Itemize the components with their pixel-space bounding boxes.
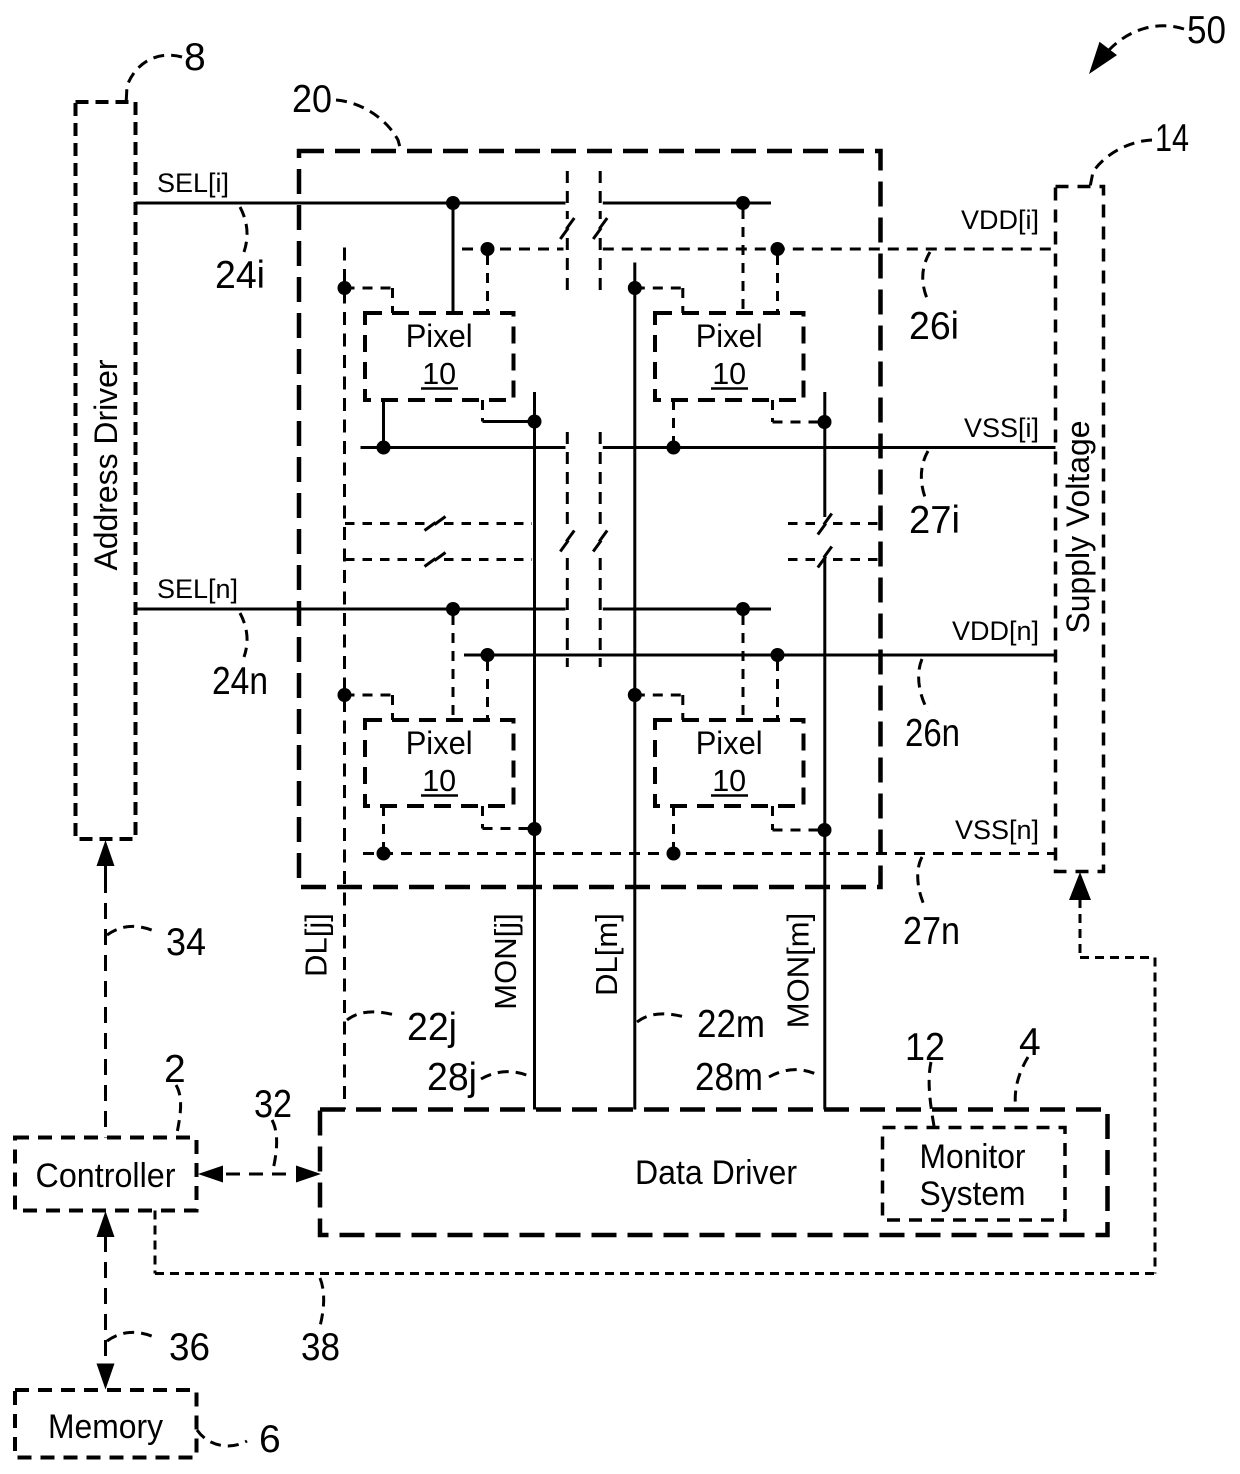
svg-text:SEL[n]: SEL[n] (157, 574, 238, 604)
svg-text:28j: 28j (427, 1056, 477, 1099)
svg-text:12: 12 (905, 1026, 945, 1069)
svg-text:50: 50 (1187, 9, 1226, 52)
svg-text:Memory: Memory (48, 1408, 163, 1446)
svg-text:27i: 27i (909, 499, 960, 542)
svg-text:Controller: Controller (36, 1157, 176, 1195)
svg-text:10: 10 (422, 764, 456, 798)
svg-text:Pixel: Pixel (696, 318, 763, 354)
svg-text:10: 10 (712, 357, 746, 391)
svg-text:MON[m]: MON[m] (781, 913, 816, 1028)
svg-text:Supply Voltage: Supply Voltage (1060, 421, 1096, 634)
svg-text:Address Driver: Address Driver (88, 359, 124, 570)
svg-text:4: 4 (1019, 1021, 1041, 1064)
svg-text:VDD[i]: VDD[i] (961, 205, 1039, 235)
svg-text:26i: 26i (909, 305, 959, 348)
svg-text:VSS[n]: VSS[n] (955, 815, 1039, 845)
svg-text:24i: 24i (215, 254, 265, 297)
svg-text:VSS[i]: VSS[i] (964, 413, 1039, 443)
svg-text:36: 36 (169, 1326, 210, 1369)
svg-text:VDD[n]: VDD[n] (952, 616, 1039, 646)
svg-text:38: 38 (301, 1326, 340, 1369)
svg-text:System: System (920, 1175, 1026, 1213)
svg-text:28m: 28m (695, 1056, 763, 1099)
svg-text:MON[j]: MON[j] (488, 913, 523, 1009)
svg-text:26n: 26n (905, 712, 960, 755)
svg-text:6: 6 (259, 1418, 281, 1461)
svg-text:24n: 24n (212, 660, 268, 703)
svg-text:14: 14 (1155, 117, 1189, 160)
svg-text:Pixel: Pixel (406, 318, 473, 354)
svg-text:SEL[i]: SEL[i] (157, 168, 229, 198)
svg-text:Pixel: Pixel (406, 725, 473, 761)
svg-text:DL[j]: DL[j] (299, 913, 334, 977)
svg-text:2: 2 (164, 1048, 186, 1091)
svg-text:32: 32 (254, 1083, 292, 1126)
svg-text:Pixel: Pixel (696, 725, 763, 761)
svg-text:27n: 27n (903, 910, 960, 953)
svg-text:22m: 22m (697, 1003, 765, 1046)
svg-text:22j: 22j (407, 1006, 457, 1049)
svg-text:20: 20 (292, 78, 332, 121)
svg-text:DL[m]: DL[m] (589, 913, 624, 996)
svg-text:34: 34 (166, 921, 206, 964)
svg-text:Monitor: Monitor (920, 1138, 1026, 1176)
svg-text:8: 8 (184, 36, 206, 79)
svg-text:Data Driver: Data Driver (635, 1154, 797, 1192)
svg-text:10: 10 (422, 357, 456, 391)
svg-text:10: 10 (712, 764, 746, 798)
